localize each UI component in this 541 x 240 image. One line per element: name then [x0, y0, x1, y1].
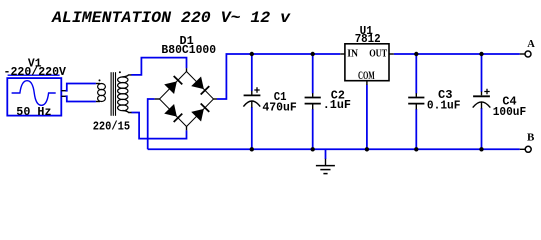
- svg-text:IN: IN: [347, 47, 358, 59]
- svg-text:B: B: [527, 132, 535, 144]
- svg-text:ALIMENTATION 220 V~ 12 v: ALIMENTATION 220 V~ 12 v: [51, 9, 291, 27]
- svg-text:220/15: 220/15: [93, 120, 130, 134]
- svg-text:.1uF: .1uF: [323, 98, 351, 112]
- svg-text:470uF: 470uF: [262, 100, 296, 114]
- svg-text:7812: 7812: [355, 32, 381, 46]
- svg-text:50 Hz: 50 Hz: [16, 105, 51, 119]
- svg-text:-220/220V: -220/220V: [4, 65, 67, 79]
- svg-text:COM: COM: [358, 70, 375, 82]
- svg-text:OUT: OUT: [369, 47, 387, 59]
- svg-text:100uF: 100uF: [493, 105, 527, 119]
- svg-text:B80C1000: B80C1000: [161, 43, 216, 57]
- svg-text:0.1uF: 0.1uF: [427, 98, 461, 112]
- svg-text:A: A: [527, 39, 535, 50]
